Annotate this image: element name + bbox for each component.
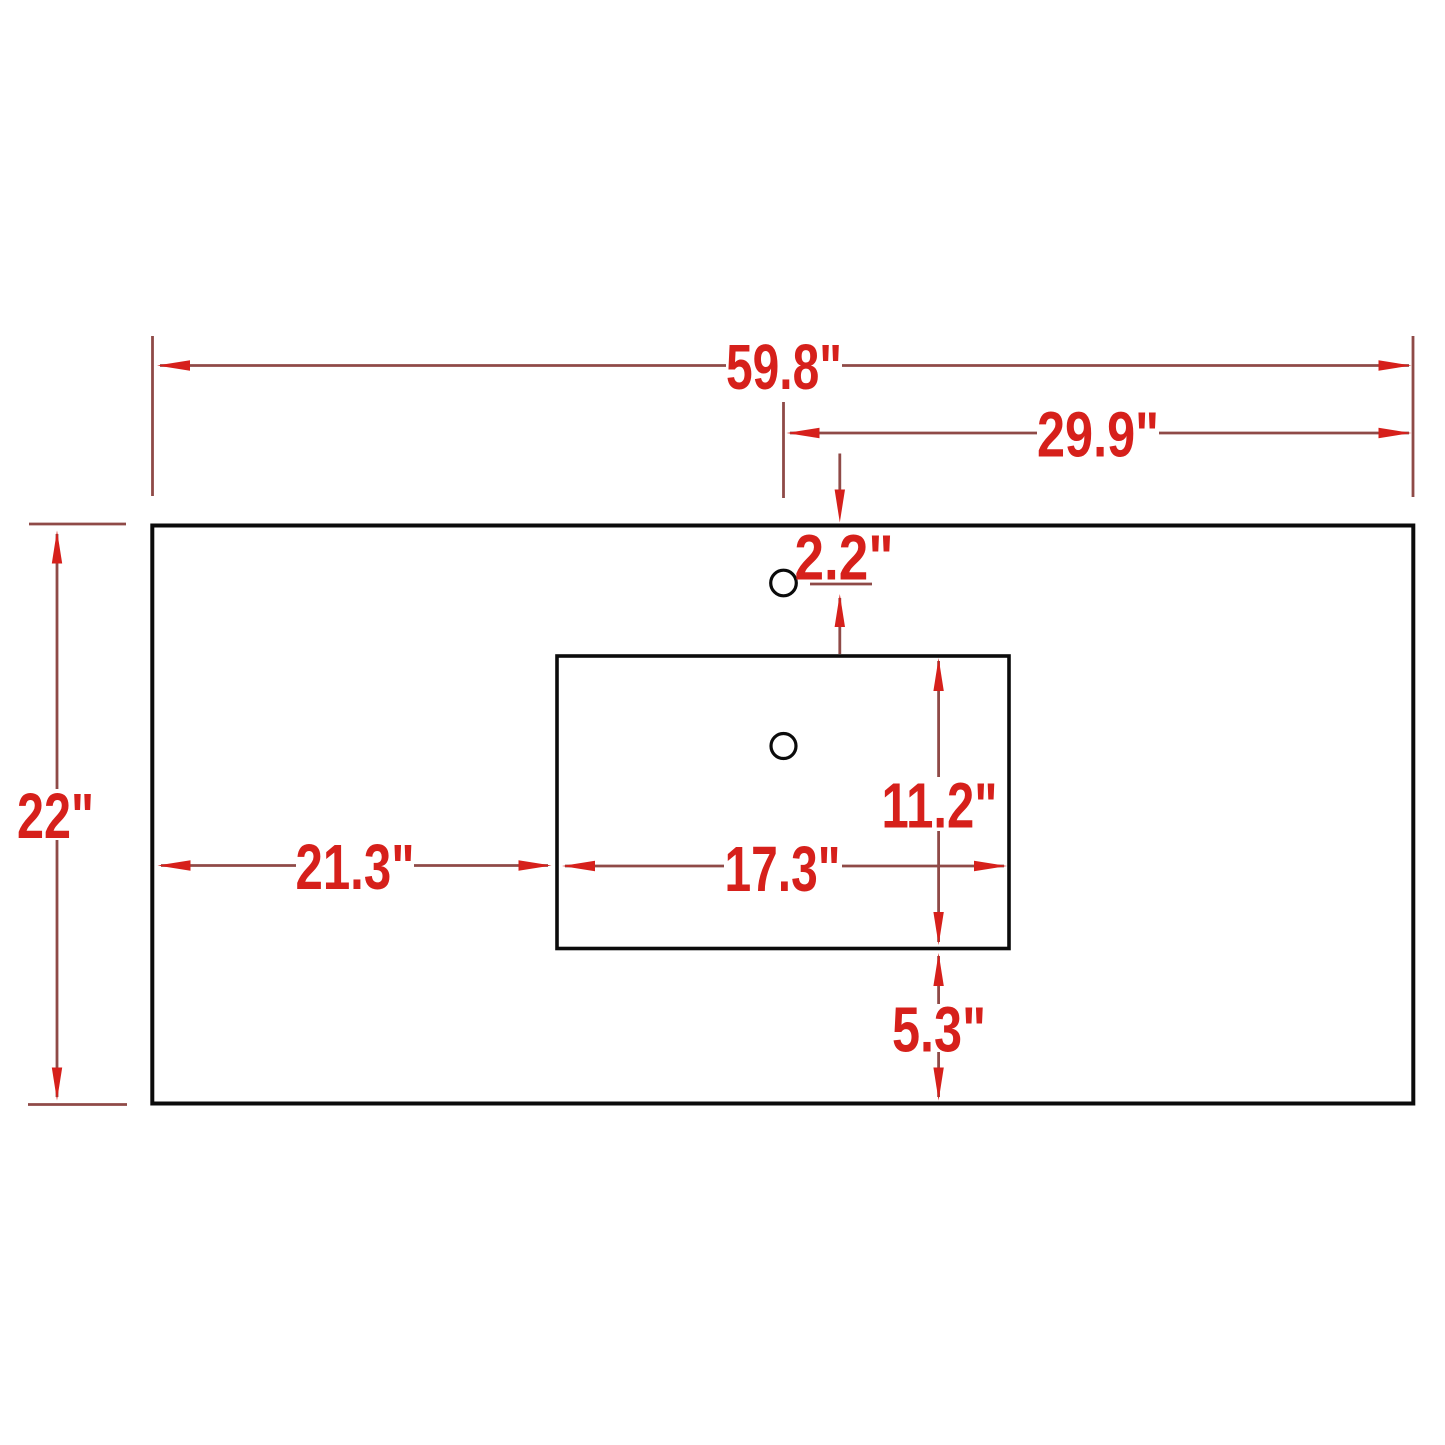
svg-text:21.3": 21.3" (296, 831, 415, 903)
svg-text:22": 22" (17, 780, 94, 852)
svg-text:11.2": 11.2" (882, 769, 998, 841)
svg-text:2.2": 2.2" (795, 522, 894, 594)
svg-text:59.8": 59.8" (726, 331, 842, 403)
svg-text:29.9": 29.9" (1037, 398, 1159, 470)
svg-text:17.3": 17.3" (725, 833, 841, 905)
svg-text:5.3": 5.3" (892, 993, 986, 1065)
